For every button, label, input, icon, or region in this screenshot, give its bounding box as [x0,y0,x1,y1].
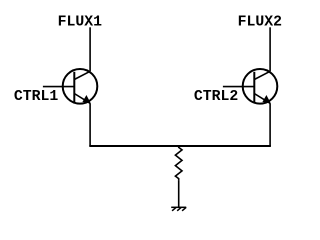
wire Q1 emitter down [89,103,91,146]
svg-text:CTRL2: CTRL2 [194,89,239,105]
wire CTRL2 to Q2 base [223,86,254,88]
wire FLUX2 to Q2 collector [269,27,271,71]
wire CTRL1 to Q1 base [43,86,74,88]
ground [171,207,186,211]
transistor Q1 [63,69,98,104]
resistor R1 [175,146,182,181]
wire FLUX1 to Q1 collector [89,27,91,71]
svg-text:FLUX1: FLUX1 [58,15,103,31]
svg-text:FLUX2: FLUX2 [238,15,283,31]
wire emitter rail [89,145,271,147]
wire Q2 emitter down [269,103,271,146]
wire resistor to ground [178,181,180,208]
svg-text:CTRL1: CTRL1 [14,89,59,105]
transistor Q2 [243,69,278,104]
